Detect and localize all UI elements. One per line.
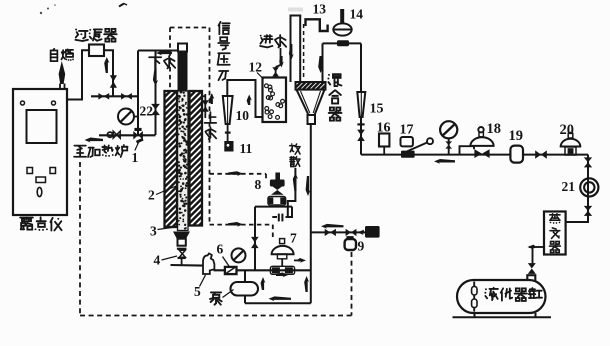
label 蒸发器 [550, 214, 561, 253]
pump suction pipe [244, 270, 246, 282]
flow arrow left on loop bottom [269, 296, 292, 301]
filter 过滤器 [89, 45, 104, 57]
valve on filter drop line [110, 75, 117, 88]
pointer line for 1 [135, 143, 139, 151]
flow meter 21 [580, 178, 598, 196]
sight glass 6 [225, 267, 237, 274]
vent leads above instrument [60, 84, 65, 91]
globe valve on furnace line [107, 131, 120, 138]
label 21 [562, 179, 576, 194]
svg-text:4: 4 [154, 253, 161, 268]
label 12 with pointer [249, 60, 264, 80]
valve 8 flange [268, 197, 286, 206]
flow arrow down on vent pipe wall [289, 44, 294, 60]
valve top of drop [584, 157, 592, 167]
water trap 13 [306, 19, 328, 31]
right jog pipe [286, 207, 292, 217]
sample point 16 [379, 134, 389, 155]
label 7 [290, 231, 297, 246]
flame arrow 自燃 [59, 61, 66, 84]
pipe from instrument to filter [67, 50, 89, 99]
column inner tube black [178, 52, 188, 92]
vent pipe right wall [299, 16, 301, 83]
wire riser x=138 [137, 51, 139, 136]
valve below rotameter 15 [357, 124, 365, 141]
pressure gauge 22 [118, 109, 138, 125]
valve before 20 [535, 150, 547, 158]
pump loop bottom pipe [245, 302, 311, 304]
label 14 [350, 7, 364, 22]
cock 17 box [401, 137, 413, 146]
instrument buttons [27, 168, 56, 197]
to-furnace pipe [99, 134, 156, 136]
svg-text:14: 14 [350, 7, 364, 22]
signal arrow to 8 [228, 171, 243, 176]
rotameter loop pipes [227, 80, 262, 117]
scan speck B [119, 4, 127, 7]
column left jacket wall [165, 79, 178, 248]
control valve 1 [133, 128, 143, 140]
dashed sample-signal line left [79, 162, 81, 316]
vent branch pipe [286, 168, 296, 217]
bubbles in vessel 12 [265, 84, 285, 119]
regulator 20 body [565, 147, 576, 155]
svg-text:22: 22 [140, 104, 154, 119]
flow arrow down inlet [279, 56, 284, 68]
regulator 20 pilot [568, 132, 573, 138]
label 13 [313, 2, 327, 17]
dashed box top [170, 27, 210, 29]
valve on inlet [272, 67, 279, 76]
drain to sample bottle [225, 124, 231, 141]
flow arrow left below main right pipe [434, 159, 455, 164]
evaporator 蒸发器 box [544, 212, 566, 255]
svg-text:13: 13 [313, 2, 327, 17]
scan speck C [40, 12, 42, 14]
label 上水 [205, 112, 217, 139]
label 19 [509, 128, 524, 144]
valve B on 9-line [346, 229, 357, 236]
dashed sample-signal line bottom [80, 315, 352, 317]
svg-text:2: 2 [148, 188, 155, 203]
label 4 with pointer [154, 253, 178, 268]
flange under valve 14 [337, 40, 349, 46]
left branch pipe to main [254, 207, 256, 271]
column packed tube stipple [178, 91, 189, 231]
svg-text:17: 17 [400, 123, 414, 138]
scan ghost above vent pipe [288, 8, 303, 12]
pipe union [272, 214, 282, 222]
downwater top pipe [138, 50, 178, 52]
column inner tube cap [178, 44, 187, 52]
column bottom cone [173, 232, 190, 239]
column right jacket wall [190, 79, 203, 248]
flow arrow left on downwater top pipe [156, 51, 172, 56]
dashed line beside vent pipe [303, 24, 305, 80]
regulator 7 flange [270, 266, 294, 274]
cylinder nozzle [527, 275, 535, 282]
rotameter 15 [357, 92, 365, 117]
drain fitting 4 [177, 249, 187, 265]
pipe below valve 8 [255, 205, 292, 207]
label 自燃 [51, 49, 74, 61]
regulator 7 side arrow [294, 258, 306, 263]
dew point instrument 露点仪 box [13, 89, 67, 215]
label 20 [560, 122, 575, 138]
label 放散 [290, 143, 300, 166]
valve 8 actuator [270, 173, 285, 187]
label 下水 [149, 56, 175, 69]
bubbler vessel 12 [263, 78, 287, 123]
pipe filter to main line [104, 50, 113, 96]
cock 17 body [401, 138, 433, 158]
label 混合器 [327, 74, 341, 121]
valve on sample header B [121, 93, 132, 100]
flow arrow up vent branch [293, 173, 298, 191]
fitting 9 [345, 237, 356, 250]
dashed signal to 7 [210, 225, 273, 240]
label 过滤器 [75, 29, 117, 42]
sample header 9 pipe [311, 231, 366, 233]
svg-text:16: 16 [377, 121, 391, 136]
column bottom box [178, 239, 186, 246]
flow arrow up on outlet pipe lower [304, 276, 309, 292]
liquefier cylinder 液化器缸 [457, 280, 546, 313]
valve on left branch [251, 237, 259, 248]
label 泵 with pointer [210, 290, 234, 305]
instrument screws [21, 101, 56, 105]
arrowhead into black box [358, 230, 364, 235]
flow arrow up right of pump [261, 277, 266, 290]
pump 泵 [231, 282, 259, 296]
svg-text:6: 6 [217, 242, 224, 257]
svg-text:15: 15 [370, 102, 384, 117]
instrument display window [27, 110, 57, 143]
label 5 with pointer [194, 275, 206, 299]
dashed signal to valve 8 [210, 174, 267, 179]
label 10 [236, 108, 250, 123]
pipe jog [460, 146, 475, 154]
pipe from 14 to rotameter line [323, 42, 362, 44]
regulator 7 neck [277, 254, 286, 266]
pump discharge pipe [244, 296, 246, 304]
black valve on downwater riser [151, 104, 160, 115]
regulator 18 body [474, 149, 489, 158]
cylinder level gauge [472, 282, 477, 312]
upwater stub and valve [202, 94, 209, 118]
flow arrow up beside filter line [104, 57, 109, 73]
valve bottom of drop [584, 206, 592, 216]
valve 14 stem [340, 9, 344, 24]
label 18 [487, 121, 502, 137]
valve on sample header A [98, 93, 109, 100]
label 9 [358, 239, 365, 254]
evaporator outlet pipe [528, 245, 545, 264]
vent pipe left wall [290, 16, 292, 83]
valve A on 9-line [325, 229, 336, 236]
main right pipe [361, 154, 588, 156]
drop pipe right [566, 155, 589, 222]
flow arrow up on loop [247, 95, 252, 106]
mixer outlet box [308, 115, 316, 124]
line 14 to main right [360, 43, 362, 154]
svg-text:1: 1 [132, 150, 139, 165]
label 液化器缸 [484, 288, 542, 301]
mixer feed drop pipe [322, 43, 324, 82]
svg-text:18: 18 [487, 121, 502, 137]
dashed sample-signal line to 9 [351, 252, 353, 316]
label 信号压力 [218, 22, 230, 80]
rotameter 10 [223, 96, 233, 124]
valve 14 body [333, 23, 351, 35]
flow arrow down on feed pipe [318, 56, 323, 73]
svg-text:7: 7 [290, 231, 297, 246]
signal arrow to 7 [228, 222, 243, 227]
svg-text:11: 11 [240, 141, 253, 156]
ground line [453, 316, 552, 318]
flow arrow left above 9-line [321, 224, 344, 229]
column drain pipe [171, 264, 204, 267]
svg-text:3: 3 [150, 224, 157, 239]
flow arrow down on downwater riser [153, 69, 158, 87]
label 15 [370, 102, 384, 117]
sample header pipe [91, 95, 138, 97]
label 22 [140, 104, 154, 119]
sample block [365, 226, 380, 238]
mixer outlet pipe [310, 124, 312, 303]
label 6 with pointer [217, 242, 230, 267]
regulator 7 nub [280, 239, 285, 244]
label 进水 [260, 35, 286, 48]
svg-text:10: 10 [236, 108, 250, 123]
label 16 [377, 121, 391, 136]
regulator 20 dome [561, 139, 581, 147]
svg-text:21: 21 [562, 179, 576, 194]
mixer top plate [296, 54, 326, 147]
flow arrow on outlet pipe [306, 176, 311, 196]
regulator 18 pilot [478, 127, 483, 137]
svg-text:19: 19 [509, 128, 524, 144]
label 至加热炉 [74, 144, 127, 157]
label 露点仪 [20, 217, 61, 231]
sample bottle 11 [224, 141, 233, 152]
svg-text:12: 12 [249, 60, 263, 75]
flow arrow right below main pipe [276, 273, 289, 278]
trap 5 [203, 253, 214, 274]
valve above cylinder [528, 263, 536, 274]
main process pipe [214, 269, 311, 271]
regulator 18 dome [470, 137, 493, 146]
mixer cone [297, 90, 325, 115]
label 11 [240, 141, 253, 156]
label 2 with pointer [148, 186, 176, 203]
svg-text:8: 8 [255, 177, 262, 192]
main pressure gauge [440, 121, 457, 154]
flow arrow up on signal riser [209, 93, 214, 104]
label 3 with pointer [150, 224, 172, 239]
scan speck A [47, 4, 56, 9]
dashed signal riser [209, 28, 211, 225]
vent pipe top [290, 15, 302, 17]
regulator 7 dome [272, 246, 294, 254]
downwater riser x=155.5 [155, 51, 157, 136]
filter 19 [510, 146, 523, 163]
pressure gauge near pump [232, 248, 246, 262]
flow arrow to furnace [85, 138, 104, 143]
svg-text:9: 9 [358, 239, 365, 254]
flag below valve 1 [137, 139, 144, 142]
label 1 [132, 150, 139, 165]
valve 8 body [271, 185, 284, 194]
label 8 [255, 177, 262, 192]
valve on gauge stem [445, 141, 452, 148]
svg-text:20: 20 [560, 122, 575, 138]
inlet pipe 进水 [276, 48, 281, 78]
label 17 [400, 123, 414, 138]
cylinder legs [475, 313, 536, 317]
dashed box left [169, 28, 171, 89]
